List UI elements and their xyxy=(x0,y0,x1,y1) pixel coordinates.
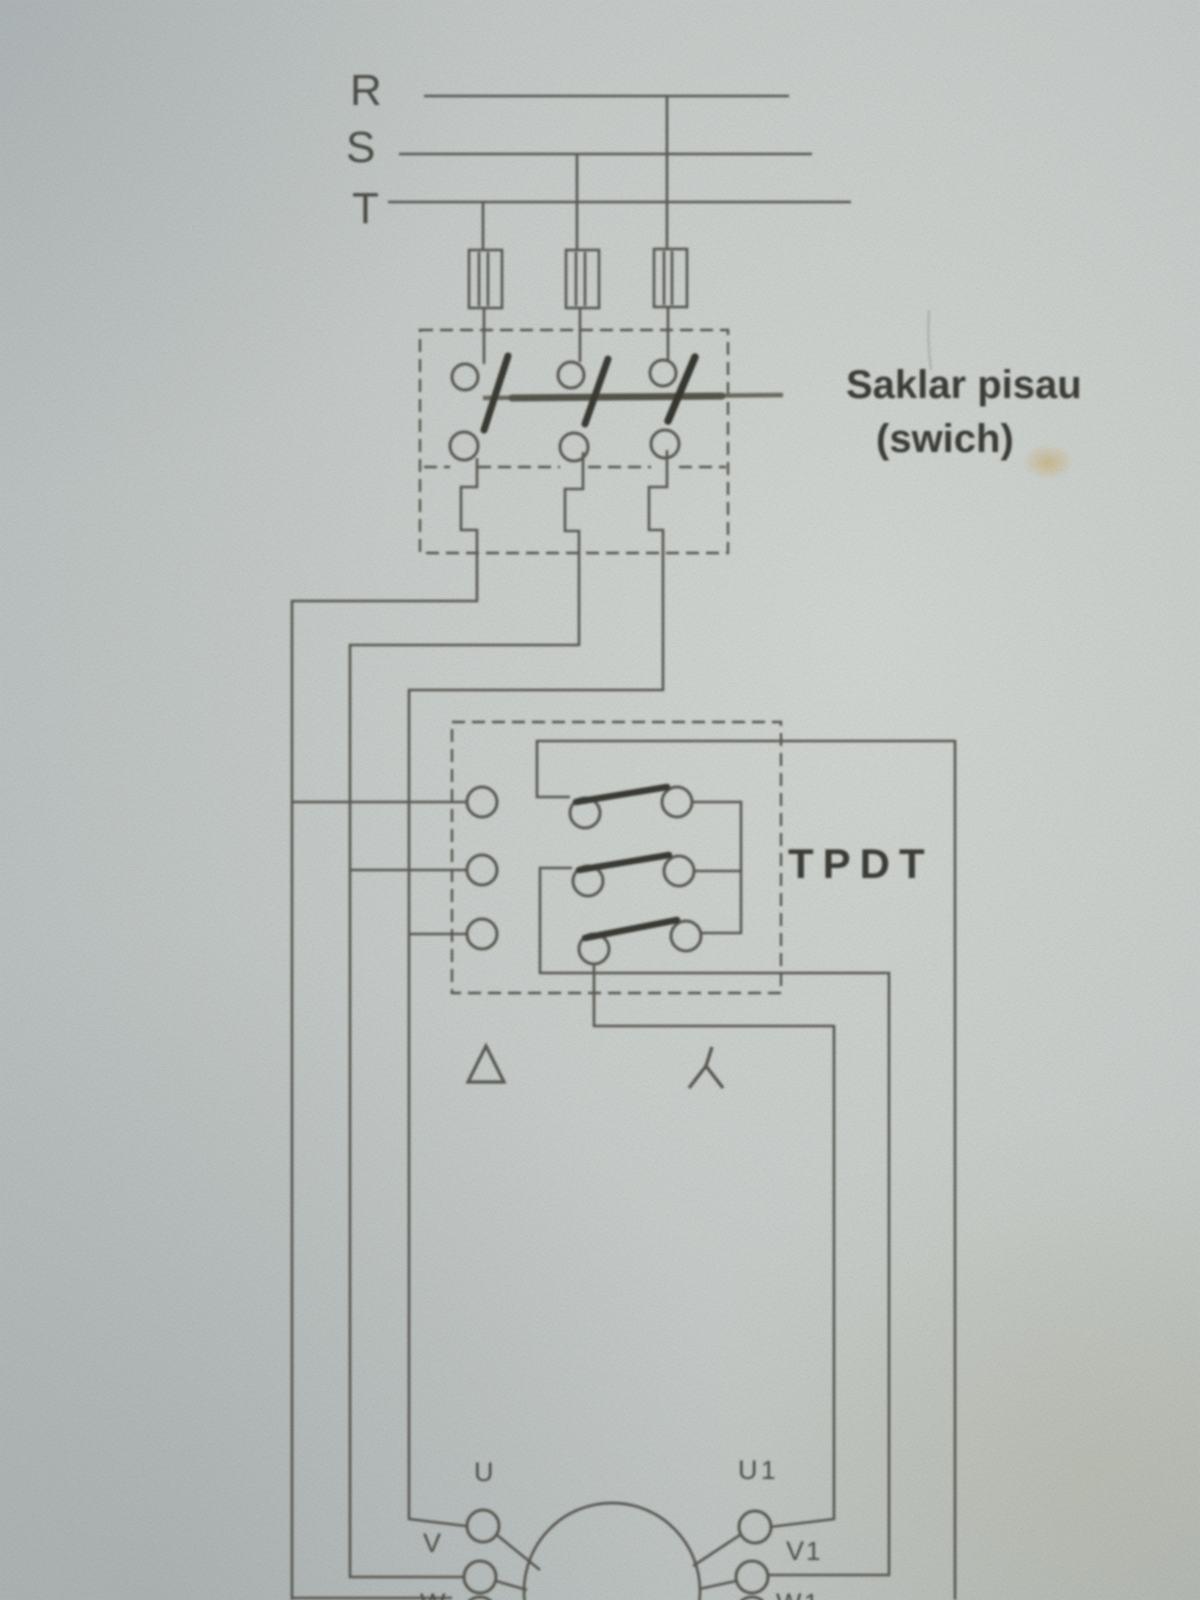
motor terminal W1 xyxy=(736,1597,768,1600)
wire star rail joining R1 R2 R3 xyxy=(692,802,741,933)
fuse F3 xyxy=(654,249,687,307)
motor terminal V1 xyxy=(736,1561,768,1593)
TPDT left terminal L1 xyxy=(467,787,497,817)
wire S drop to fuse F2 xyxy=(577,154,580,362)
fuse F1 xyxy=(469,250,502,308)
TPDT left terminal L3 xyxy=(467,919,497,949)
wire R drop to fuse F3 xyxy=(667,96,668,360)
TPDT bridge blade 1 xyxy=(576,787,667,802)
knife switch dashed enclosure xyxy=(420,330,728,553)
wire stub x350 to TPDT terminal L2 xyxy=(350,869,466,872)
motor terminal U xyxy=(467,1510,499,1542)
wire pole2 jog down to bus at x350 xyxy=(350,452,583,1577)
TPDT pole contact M2 xyxy=(573,866,603,896)
knife switch pole 1 lower contact xyxy=(450,432,478,460)
wire M1 to top rail to W1 drop xyxy=(537,741,955,1600)
motor terminal V xyxy=(464,1561,496,1593)
phase line S xyxy=(399,153,812,156)
wire stub x409 to TPDT terminal L3 xyxy=(409,933,466,936)
motor body xyxy=(524,1503,700,1600)
knife switch blade 1 xyxy=(484,356,508,430)
phase line R xyxy=(424,95,789,98)
link V1 to motor xyxy=(699,1581,736,1589)
TPDT right contact R2 xyxy=(664,856,694,886)
knife switch pole 2 upper contact xyxy=(558,362,584,388)
knife switch handle bar xyxy=(483,395,783,398)
wire pole3 jog down to bus at x409 xyxy=(409,450,667,1526)
motor terminal U1 xyxy=(739,1511,771,1543)
TPDT pole contact M1 xyxy=(570,798,600,828)
TPDT pole contact M3 xyxy=(579,934,609,964)
fuse F2 xyxy=(566,250,599,308)
link U to motor xyxy=(497,1535,540,1570)
wire x292 to motor W xyxy=(292,1597,452,1600)
knife switch pole 3 upper contact xyxy=(650,360,676,386)
knife switch pole 3 lower contact xyxy=(651,430,679,458)
motor terminal W xyxy=(464,1597,496,1600)
faint pencil streak artifact xyxy=(928,310,931,370)
delta symbol xyxy=(468,1046,504,1082)
knife switch pole 2 lower contact xyxy=(560,433,588,461)
wire stub x292 to TPDT terminal L1 xyxy=(292,801,466,804)
TPDT right contact R3 xyxy=(671,921,701,951)
TPDT bridge blade 3 xyxy=(585,920,677,938)
wire pole1 jog down to bus at x292 xyxy=(292,458,477,1600)
wire M2 down and right to V1 drop xyxy=(540,868,889,1575)
TPDT left terminal L2 xyxy=(467,855,497,885)
knife switch blade 2 xyxy=(585,359,608,424)
link U1 to motor xyxy=(693,1535,740,1566)
TPDT right contact R1 xyxy=(662,787,692,817)
phase line T xyxy=(388,201,851,204)
star symbol xyxy=(689,1047,723,1088)
knife switch pole 1 upper contact xyxy=(452,364,478,390)
knife switch blade 3 xyxy=(668,357,695,421)
TPDT dashed enclosure xyxy=(452,722,781,993)
wire T drop to fuse F1 xyxy=(483,202,484,364)
wire M3 down and right to U1 xyxy=(594,965,834,1527)
link V to motor xyxy=(496,1581,527,1590)
TPDT bridge blade 2 xyxy=(579,855,669,870)
